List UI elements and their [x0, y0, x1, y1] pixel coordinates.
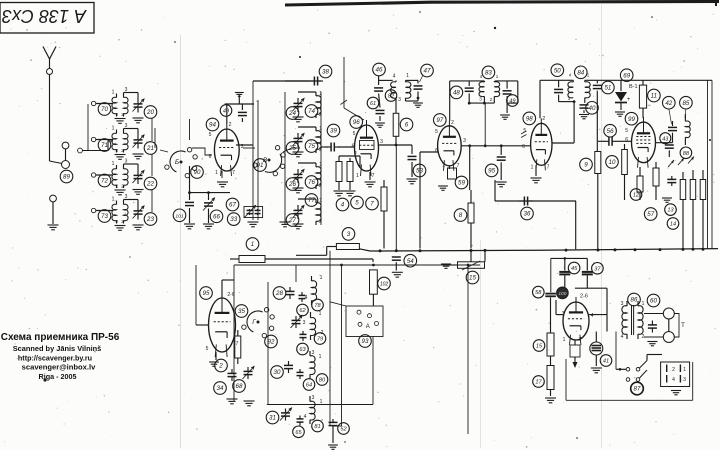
svg-text:2: 2: [542, 116, 545, 122]
svg-text:−: −: [647, 103, 651, 109]
svg-text:42: 42: [665, 100, 672, 107]
svg-text:98: 98: [526, 116, 533, 123]
svg-text:36: 36: [524, 211, 531, 218]
svg-text:30: 30: [274, 369, 281, 376]
svg-text:17: 17: [535, 380, 542, 386]
svg-text:58: 58: [535, 290, 542, 296]
svg-text:3: 3: [312, 350, 315, 356]
svg-text:2: 2: [490, 97, 493, 102]
svg-text:1: 1: [112, 126, 115, 132]
svg-text:1: 1: [251, 241, 254, 248]
svg-text:60: 60: [650, 298, 657, 305]
svg-text:38: 38: [322, 69, 329, 76]
svg-text:96: 96: [353, 119, 360, 126]
svg-text:1: 1: [683, 367, 686, 373]
svg-text:68: 68: [236, 383, 243, 390]
svg-text:40: 40: [589, 105, 596, 112]
svg-text:4: 4: [304, 414, 307, 420]
svg-text:82: 82: [388, 94, 395, 100]
svg-text:1: 1: [442, 163, 445, 169]
svg-text:6: 6: [405, 122, 409, 129]
svg-text:59: 59: [458, 180, 465, 187]
svg-text:102: 102: [380, 282, 389, 288]
svg-text:63: 63: [299, 347, 306, 353]
svg-text:1: 1: [112, 161, 115, 167]
svg-text:5: 5: [625, 128, 628, 134]
svg-text:2: 2: [116, 148, 119, 153]
svg-text:77: 77: [308, 197, 315, 204]
svg-text:3: 3: [479, 97, 482, 102]
svg-text:74: 74: [308, 108, 315, 115]
svg-text:1: 1: [496, 74, 499, 79]
svg-text:1: 1: [531, 165, 534, 171]
svg-text:99: 99: [628, 116, 635, 123]
svg-text:В-1: В-1: [629, 84, 638, 90]
svg-text:15: 15: [536, 344, 543, 350]
svg-text:51: 51: [604, 85, 611, 92]
svg-text:1: 1: [112, 197, 115, 203]
svg-text:3: 3: [568, 96, 571, 101]
svg-text:15: 15: [469, 275, 476, 282]
svg-text:4: 4: [354, 150, 357, 155]
svg-text:12: 12: [633, 193, 640, 199]
svg-text:57: 57: [647, 211, 654, 218]
svg-text:78: 78: [314, 303, 321, 309]
svg-text:6: 6: [522, 144, 525, 150]
svg-text:89: 89: [63, 174, 70, 181]
svg-text:4: 4: [341, 202, 345, 209]
svg-text:1: 1: [112, 90, 115, 96]
svg-text:83: 83: [485, 70, 492, 77]
svg-text:25: 25: [288, 145, 296, 152]
svg-text:6: 6: [435, 148, 438, 154]
svg-text:4: 4: [621, 334, 624, 340]
svg-text:5: 5: [353, 131, 356, 137]
svg-text:2: 2: [116, 184, 119, 189]
svg-text:5: 5: [355, 200, 359, 207]
svg-text:7: 7: [547, 165, 550, 171]
svg-text:+: +: [627, 97, 631, 103]
svg-text:4: 4: [569, 73, 572, 78]
svg-text:scavenger@inbox.lv: scavenger@inbox.lv: [22, 363, 96, 372]
svg-text:7: 7: [232, 170, 235, 176]
svg-text:3: 3: [125, 159, 128, 165]
svg-text:35: 35: [238, 308, 245, 315]
svg-text:3: 3: [125, 87, 128, 93]
svg-text:13: 13: [667, 208, 674, 214]
svg-text:88: 88: [683, 151, 690, 157]
svg-text:3: 3: [621, 301, 624, 307]
svg-text:1: 1: [587, 73, 590, 78]
svg-text:86: 86: [631, 297, 638, 304]
svg-text:Г: Г: [252, 319, 256, 326]
svg-text:3: 3: [312, 395, 315, 401]
svg-text:А: А: [366, 324, 370, 330]
svg-text:4: 4: [591, 313, 594, 319]
svg-text:1: 1: [406, 73, 409, 79]
svg-text:6: 6: [209, 154, 212, 160]
svg-text:43: 43: [662, 136, 668, 142]
svg-text:3: 3: [683, 377, 686, 383]
svg-text:11: 11: [651, 93, 657, 100]
svg-text:21: 21: [146, 145, 154, 152]
svg-text:1: 1: [563, 337, 566, 343]
svg-text:97: 97: [436, 117, 443, 124]
svg-text:80: 80: [319, 378, 326, 384]
svg-text:76: 76: [308, 179, 315, 186]
svg-text:2: 2: [451, 120, 454, 126]
svg-text:7: 7: [372, 173, 375, 179]
svg-text:101: 101: [175, 213, 183, 219]
svg-text:10: 10: [609, 159, 616, 166]
svg-text:46: 46: [376, 67, 383, 74]
svg-text:66: 66: [213, 213, 220, 220]
svg-text:85: 85: [682, 100, 689, 107]
svg-text:1: 1: [215, 170, 218, 176]
svg-text:87: 87: [634, 386, 641, 393]
svg-text:3: 3: [398, 97, 401, 103]
svg-text:7: 7: [457, 163, 460, 169]
svg-text:71: 71: [101, 142, 108, 149]
svg-text:9: 9: [584, 162, 588, 169]
svg-text:56: 56: [607, 128, 614, 135]
svg-text:75: 75: [308, 143, 315, 150]
svg-text:2-6: 2-6: [227, 292, 234, 298]
svg-text:23: 23: [146, 216, 154, 223]
svg-text:7: 7: [579, 337, 582, 343]
svg-text:5: 5: [209, 132, 212, 138]
svg-text:90: 90: [194, 169, 201, 176]
svg-text:52: 52: [340, 427, 347, 433]
svg-text:14: 14: [670, 222, 676, 228]
svg-text:2: 2: [229, 122, 232, 128]
svg-text:54: 54: [407, 258, 414, 265]
svg-text:http://scavenger.by.ru: http://scavenger.by.ru: [18, 354, 92, 363]
svg-text:84: 84: [577, 69, 584, 76]
svg-text:100: 100: [558, 291, 566, 297]
svg-text:20: 20: [146, 109, 154, 116]
svg-text:2: 2: [116, 112, 119, 117]
svg-text:6: 6: [625, 137, 628, 143]
svg-text:31: 31: [269, 415, 276, 422]
svg-text:Т: Т: [681, 323, 685, 329]
svg-text:41: 41: [603, 359, 609, 365]
svg-text:2: 2: [116, 219, 119, 224]
svg-text:3: 3: [380, 139, 383, 145]
svg-text:50: 50: [554, 67, 561, 74]
svg-text:26: 26: [288, 181, 296, 188]
svg-text:3: 3: [347, 231, 351, 238]
svg-text:48: 48: [453, 90, 460, 97]
svg-text:1: 1: [319, 354, 322, 360]
svg-text:72: 72: [101, 178, 108, 185]
svg-text:4: 4: [672, 377, 675, 383]
svg-text:65: 65: [295, 430, 302, 436]
svg-text:Схема приемника ПР-56: Схема приемника ПР-56: [1, 332, 120, 343]
svg-text:49: 49: [223, 109, 229, 115]
svg-text:2-6: 2-6: [580, 294, 588, 300]
svg-text:1: 1: [356, 173, 359, 179]
svg-text:73: 73: [101, 213, 108, 220]
svg-text:4: 4: [393, 74, 396, 80]
svg-text:62: 62: [299, 308, 306, 314]
svg-text:3: 3: [463, 138, 466, 144]
svg-text:Scanned by Jānis Vilniņš: Scanned by Jānis Vilniņš: [13, 344, 102, 353]
svg-text:7: 7: [370, 201, 374, 208]
svg-text:81: 81: [314, 424, 320, 430]
svg-text:22: 22: [146, 181, 154, 188]
svg-text:70: 70: [101, 106, 108, 113]
svg-text:24: 24: [288, 110, 296, 117]
svg-text:33: 33: [230, 216, 237, 223]
svg-text:95: 95: [203, 290, 210, 297]
svg-text:94: 94: [209, 122, 216, 129]
svg-text:28: 28: [275, 290, 283, 297]
svg-text:37: 37: [594, 266, 601, 272]
svg-text:4: 4: [305, 295, 308, 301]
svg-text:1: 1: [320, 275, 323, 281]
svg-text:2: 2: [321, 330, 324, 336]
svg-text:Б: Б: [175, 159, 179, 166]
svg-text:27: 27: [288, 217, 296, 224]
svg-text:5: 5: [435, 129, 438, 135]
svg-text:3: 3: [125, 194, 128, 200]
svg-text:1: 1: [319, 311, 322, 317]
svg-text:49: 49: [509, 99, 515, 105]
svg-text:93: 93: [362, 338, 369, 345]
svg-text:В: В: [263, 157, 268, 164]
svg-text:3: 3: [125, 123, 128, 129]
svg-text:3: 3: [562, 311, 565, 317]
svg-text:8: 8: [459, 212, 463, 219]
svg-text:95: 95: [488, 168, 495, 175]
svg-text:69: 69: [623, 72, 630, 79]
svg-text:5: 5: [206, 346, 209, 352]
svg-text:45: 45: [571, 266, 578, 272]
svg-text:92: 92: [268, 339, 275, 346]
svg-text:1: 1: [642, 301, 645, 307]
svg-text:79: 79: [317, 337, 323, 343]
svg-text:2: 2: [218, 363, 223, 370]
svg-text:67: 67: [229, 202, 236, 209]
svg-text:3: 3: [303, 320, 306, 326]
svg-text:А 138 Сх3: А 138 Сх3: [2, 6, 87, 26]
svg-text:47: 47: [424, 68, 431, 75]
svg-text:61: 61: [370, 101, 376, 107]
svg-text:7: 7: [236, 341, 239, 347]
svg-text:2: 2: [672, 367, 675, 373]
svg-text:39: 39: [330, 128, 337, 135]
svg-text:64: 64: [306, 383, 312, 389]
svg-text:34: 34: [217, 385, 224, 392]
